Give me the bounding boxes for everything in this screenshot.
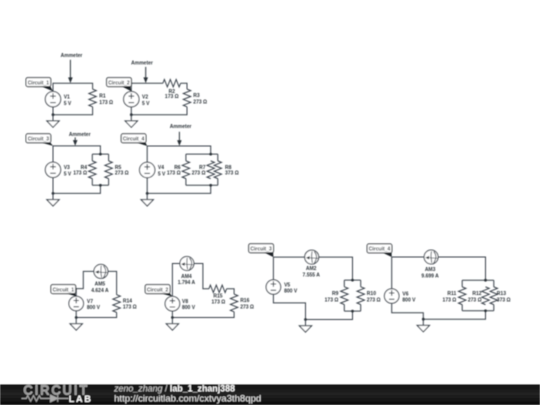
resistor R3 <box>183 89 190 107</box>
svg-text:Circuit_1: Circuit_1 <box>53 287 75 293</box>
svg-text:7.555 A: 7.555 A <box>303 272 321 278</box>
ground circuit 1 <box>47 115 59 128</box>
label AM5 value <box>91 282 109 294</box>
svg-text:800 V: 800 V <box>402 298 416 304</box>
svg-text:173 Ω: 173 Ω <box>443 297 457 303</box>
resistor R5 <box>105 161 112 179</box>
svg-text:173 Ω: 173 Ω <box>99 100 113 106</box>
voltage source V7 <box>69 296 84 311</box>
svg-text:273 Ω: 273 Ω <box>192 170 206 176</box>
resistor R16 <box>230 294 237 312</box>
label R15 value <box>212 293 226 305</box>
voltage source V4 <box>140 162 155 177</box>
label R3 value <box>193 93 207 105</box>
wire parallel bars circuit 4 <box>186 154 218 185</box>
resistor R15 <box>209 285 227 292</box>
node junction parallel bottom circuit 3 <box>99 184 102 187</box>
node junction V2 ground <box>130 113 133 116</box>
svg-text:273 Ω: 273 Ω <box>240 304 254 310</box>
callout label Circuit_1 <box>26 78 53 92</box>
wire parallel bars circuit 3 <box>92 154 108 185</box>
annotation Ammeter arrow circuit 3 <box>69 132 91 146</box>
svg-text:http://circuitlab.com/cxtvya3t: http://circuitlab.com/cxtvya3th8qpd <box>114 393 261 404</box>
voltage source V5 <box>266 280 281 295</box>
ground bottom circuit 4 <box>417 319 429 332</box>
label AM4 value <box>178 274 196 286</box>
voltage source V8 <box>165 296 180 311</box>
svg-text:273 Ω: 273 Ω <box>468 297 482 303</box>
svg-text:Ammeter: Ammeter <box>61 53 83 59</box>
label R8 value <box>225 165 239 177</box>
ground bottom circuit 3 <box>299 320 311 333</box>
node junction V8 ground <box>171 316 174 319</box>
ground circuit 2 <box>125 115 137 128</box>
svg-text:4.624 A: 4.624 A <box>91 288 109 294</box>
svg-text:V5: V5 <box>284 283 290 289</box>
label R5 value <box>115 165 129 177</box>
label V3 value <box>64 165 72 178</box>
wire top loop circuit 3 <box>53 146 100 194</box>
callout label Circuit_2 <box>107 78 132 92</box>
annotation Ammeter arrow circuit 1 <box>61 53 83 83</box>
callout label Circuit_4 <box>121 134 147 146</box>
svg-text:R14: R14 <box>123 299 132 305</box>
svg-text:LAB: LAB <box>69 394 93 404</box>
svg-text:R10: R10 <box>367 291 376 297</box>
ground bottom circuit 2 <box>166 318 178 331</box>
label V5 value <box>284 283 298 295</box>
wire top loop circuit 4 <box>147 146 211 193</box>
svg-text:5 V: 5 V <box>158 172 166 178</box>
label AM2 value <box>303 266 321 278</box>
logo wire resistor diode <box>22 395 69 402</box>
svg-text:Circuit_2: Circuit_2 <box>108 80 130 86</box>
wire parallel bars bottom circuit 4 <box>462 280 494 311</box>
callout label Circuit_2 bottom <box>145 285 172 297</box>
resistor R7 <box>207 161 214 179</box>
svg-text:373 Ω: 373 Ω <box>225 170 239 176</box>
wire top loop circuit 2 <box>131 83 187 115</box>
resistor R4 <box>89 161 96 179</box>
svg-text:V1: V1 <box>64 94 70 100</box>
svg-text:Circuit_2: Circuit_2 <box>147 287 169 293</box>
label R1 value <box>99 94 113 106</box>
svg-text:R13: R13 <box>497 291 506 297</box>
svg-text:173 Ω: 173 Ω <box>212 300 226 306</box>
svg-text:373 Ω: 373 Ω <box>497 297 511 303</box>
label V1 value <box>64 94 72 107</box>
svg-text:R9: R9 <box>332 291 339 297</box>
label R9 value <box>325 291 339 303</box>
wire loop bottom circuit 3 <box>273 257 352 319</box>
wire top loop circuit 1 <box>53 83 93 115</box>
node junction V4 ground <box>146 192 149 195</box>
ammeter AM3 <box>424 250 438 264</box>
label R12 value <box>468 291 482 303</box>
resistor R13 <box>490 287 497 305</box>
svg-text:R12: R12 <box>472 291 481 297</box>
svg-text:800 V: 800 V <box>182 305 196 311</box>
label R6 value <box>167 165 181 177</box>
ammeter AM5 <box>94 264 108 278</box>
ground bottom circuit 1 <box>70 318 82 331</box>
resistor R14 <box>113 295 120 313</box>
svg-text:173 Ω: 173 Ω <box>165 94 179 100</box>
resistor R1 <box>89 89 96 107</box>
svg-text:Ammeter: Ammeter <box>69 132 91 138</box>
node junction parallel top circuit 4 <box>209 153 212 156</box>
svg-text:173 Ω: 173 Ω <box>123 305 137 311</box>
label R14 value <box>123 299 137 311</box>
svg-text:R15: R15 <box>213 293 222 299</box>
label V4 value <box>158 165 166 178</box>
callout label Circuit_4 bottom <box>367 244 392 257</box>
resistor R9 <box>341 287 348 305</box>
svg-text:Circuit_3: Circuit_3 <box>250 247 272 253</box>
svg-text:R3: R3 <box>193 93 200 99</box>
callout label Circuit_3 bottom <box>249 244 274 257</box>
resistor R8 <box>214 161 221 179</box>
voltage source V2 <box>124 92 139 107</box>
node junction parallel top circuit 3 <box>99 153 102 156</box>
node junction V1 ground <box>52 113 55 116</box>
svg-text:AM4: AM4 <box>181 274 192 280</box>
callout label Circuit_1 bottom <box>51 285 76 297</box>
wire loop bottom circuit 2 <box>172 264 234 318</box>
resistor R10 <box>357 287 364 305</box>
ammeter AM2 <box>305 250 319 264</box>
svg-text:AM2: AM2 <box>306 266 317 272</box>
svg-text:Circuit_1: Circuit_1 <box>28 80 50 86</box>
svg-text:V8: V8 <box>182 299 188 305</box>
svg-text:V7: V7 <box>87 299 93 305</box>
svg-text:V2: V2 <box>142 94 148 100</box>
svg-text:V4: V4 <box>158 165 164 171</box>
svg-text:zeno_zhang / lab_1_zhanj388: zeno_zhang / lab_1_zhanj388 <box>113 383 235 393</box>
label R11 value <box>443 291 457 303</box>
svg-text:5 V: 5 V <box>64 171 72 177</box>
svg-text:V3: V3 <box>64 165 70 171</box>
svg-text:173 Ω: 173 Ω <box>167 170 181 176</box>
label R10 value <box>367 291 381 303</box>
svg-text:Ammeter: Ammeter <box>170 124 192 130</box>
svg-text:AM5: AM5 <box>95 282 106 288</box>
label R13 value <box>497 291 511 303</box>
resistor R12 <box>482 287 489 305</box>
voltage source V3 <box>45 162 60 177</box>
resistor R2 <box>163 80 181 87</box>
svg-text:R11: R11 <box>447 291 456 297</box>
voltage source V1 <box>45 92 60 107</box>
svg-text:Circuit_3: Circuit_3 <box>28 137 50 143</box>
svg-text:Circuit_4: Circuit_4 <box>369 247 391 253</box>
ground circuit 3 <box>47 193 59 206</box>
ground circuit 4 <box>141 193 153 206</box>
node junction parallel bottom bottom circuit 4 <box>484 309 487 312</box>
label R4 value <box>73 165 87 177</box>
wire loop bottom circuit 4 <box>392 257 486 319</box>
node junction parallel bottom bottom circuit 3 <box>351 310 354 313</box>
svg-text:R16: R16 <box>240 298 249 304</box>
annotation Ammeter arrow circuit 4 <box>170 124 192 146</box>
label V2 value <box>142 94 150 107</box>
svg-text:Circuit_4: Circuit_4 <box>123 137 145 143</box>
svg-text:V6: V6 <box>402 292 408 298</box>
resistor R6 <box>182 161 189 179</box>
svg-text:5 V: 5 V <box>64 101 72 107</box>
footer background bar <box>0 385 540 405</box>
voltage source V6 <box>384 289 399 304</box>
svg-text:273 Ω: 273 Ω <box>367 297 381 303</box>
ammeter AM4 <box>180 257 194 271</box>
svg-text:9.699 A: 9.699 A <box>421 273 439 279</box>
node junction V7 ground <box>75 316 78 319</box>
svg-text:1.794 A: 1.794 A <box>178 280 196 286</box>
node junction parallel top bottom circuit 3 <box>351 279 354 282</box>
annotation Ammeter arrow circuit 2 <box>131 61 153 84</box>
svg-text:AM3: AM3 <box>425 267 436 273</box>
svg-text:R1: R1 <box>99 94 106 100</box>
label V7 value <box>87 299 101 311</box>
svg-text:173 Ω: 173 Ω <box>325 297 339 303</box>
callout label Circuit_3 <box>26 134 53 146</box>
label R2 value <box>165 89 179 100</box>
node junction V3 ground <box>52 192 55 195</box>
label R7 value <box>192 165 206 177</box>
svg-text:800 V: 800 V <box>87 305 101 311</box>
node junction parallel top bottom circuit 4 <box>484 279 487 282</box>
svg-text:273 Ω: 273 Ω <box>115 170 129 176</box>
wire parallel bars bottom circuit 3 <box>344 280 360 311</box>
wire loop bottom circuit 1 <box>76 271 116 317</box>
label AM3 value <box>421 267 439 279</box>
label V6 value <box>402 292 416 304</box>
resistor R11 <box>459 287 466 305</box>
node junction V6 ground <box>422 318 425 321</box>
svg-text:Ammeter: Ammeter <box>131 61 153 67</box>
svg-text:5 V: 5 V <box>142 101 150 107</box>
label V8 value <box>182 299 196 311</box>
node junction V5 ground <box>304 318 307 321</box>
node junction parallel bottom circuit 4 <box>209 184 212 187</box>
svg-text:800 V: 800 V <box>284 289 298 295</box>
label R16 value <box>240 298 254 310</box>
svg-text:273 Ω: 273 Ω <box>193 100 207 106</box>
svg-text:173 Ω: 173 Ω <box>73 170 87 176</box>
